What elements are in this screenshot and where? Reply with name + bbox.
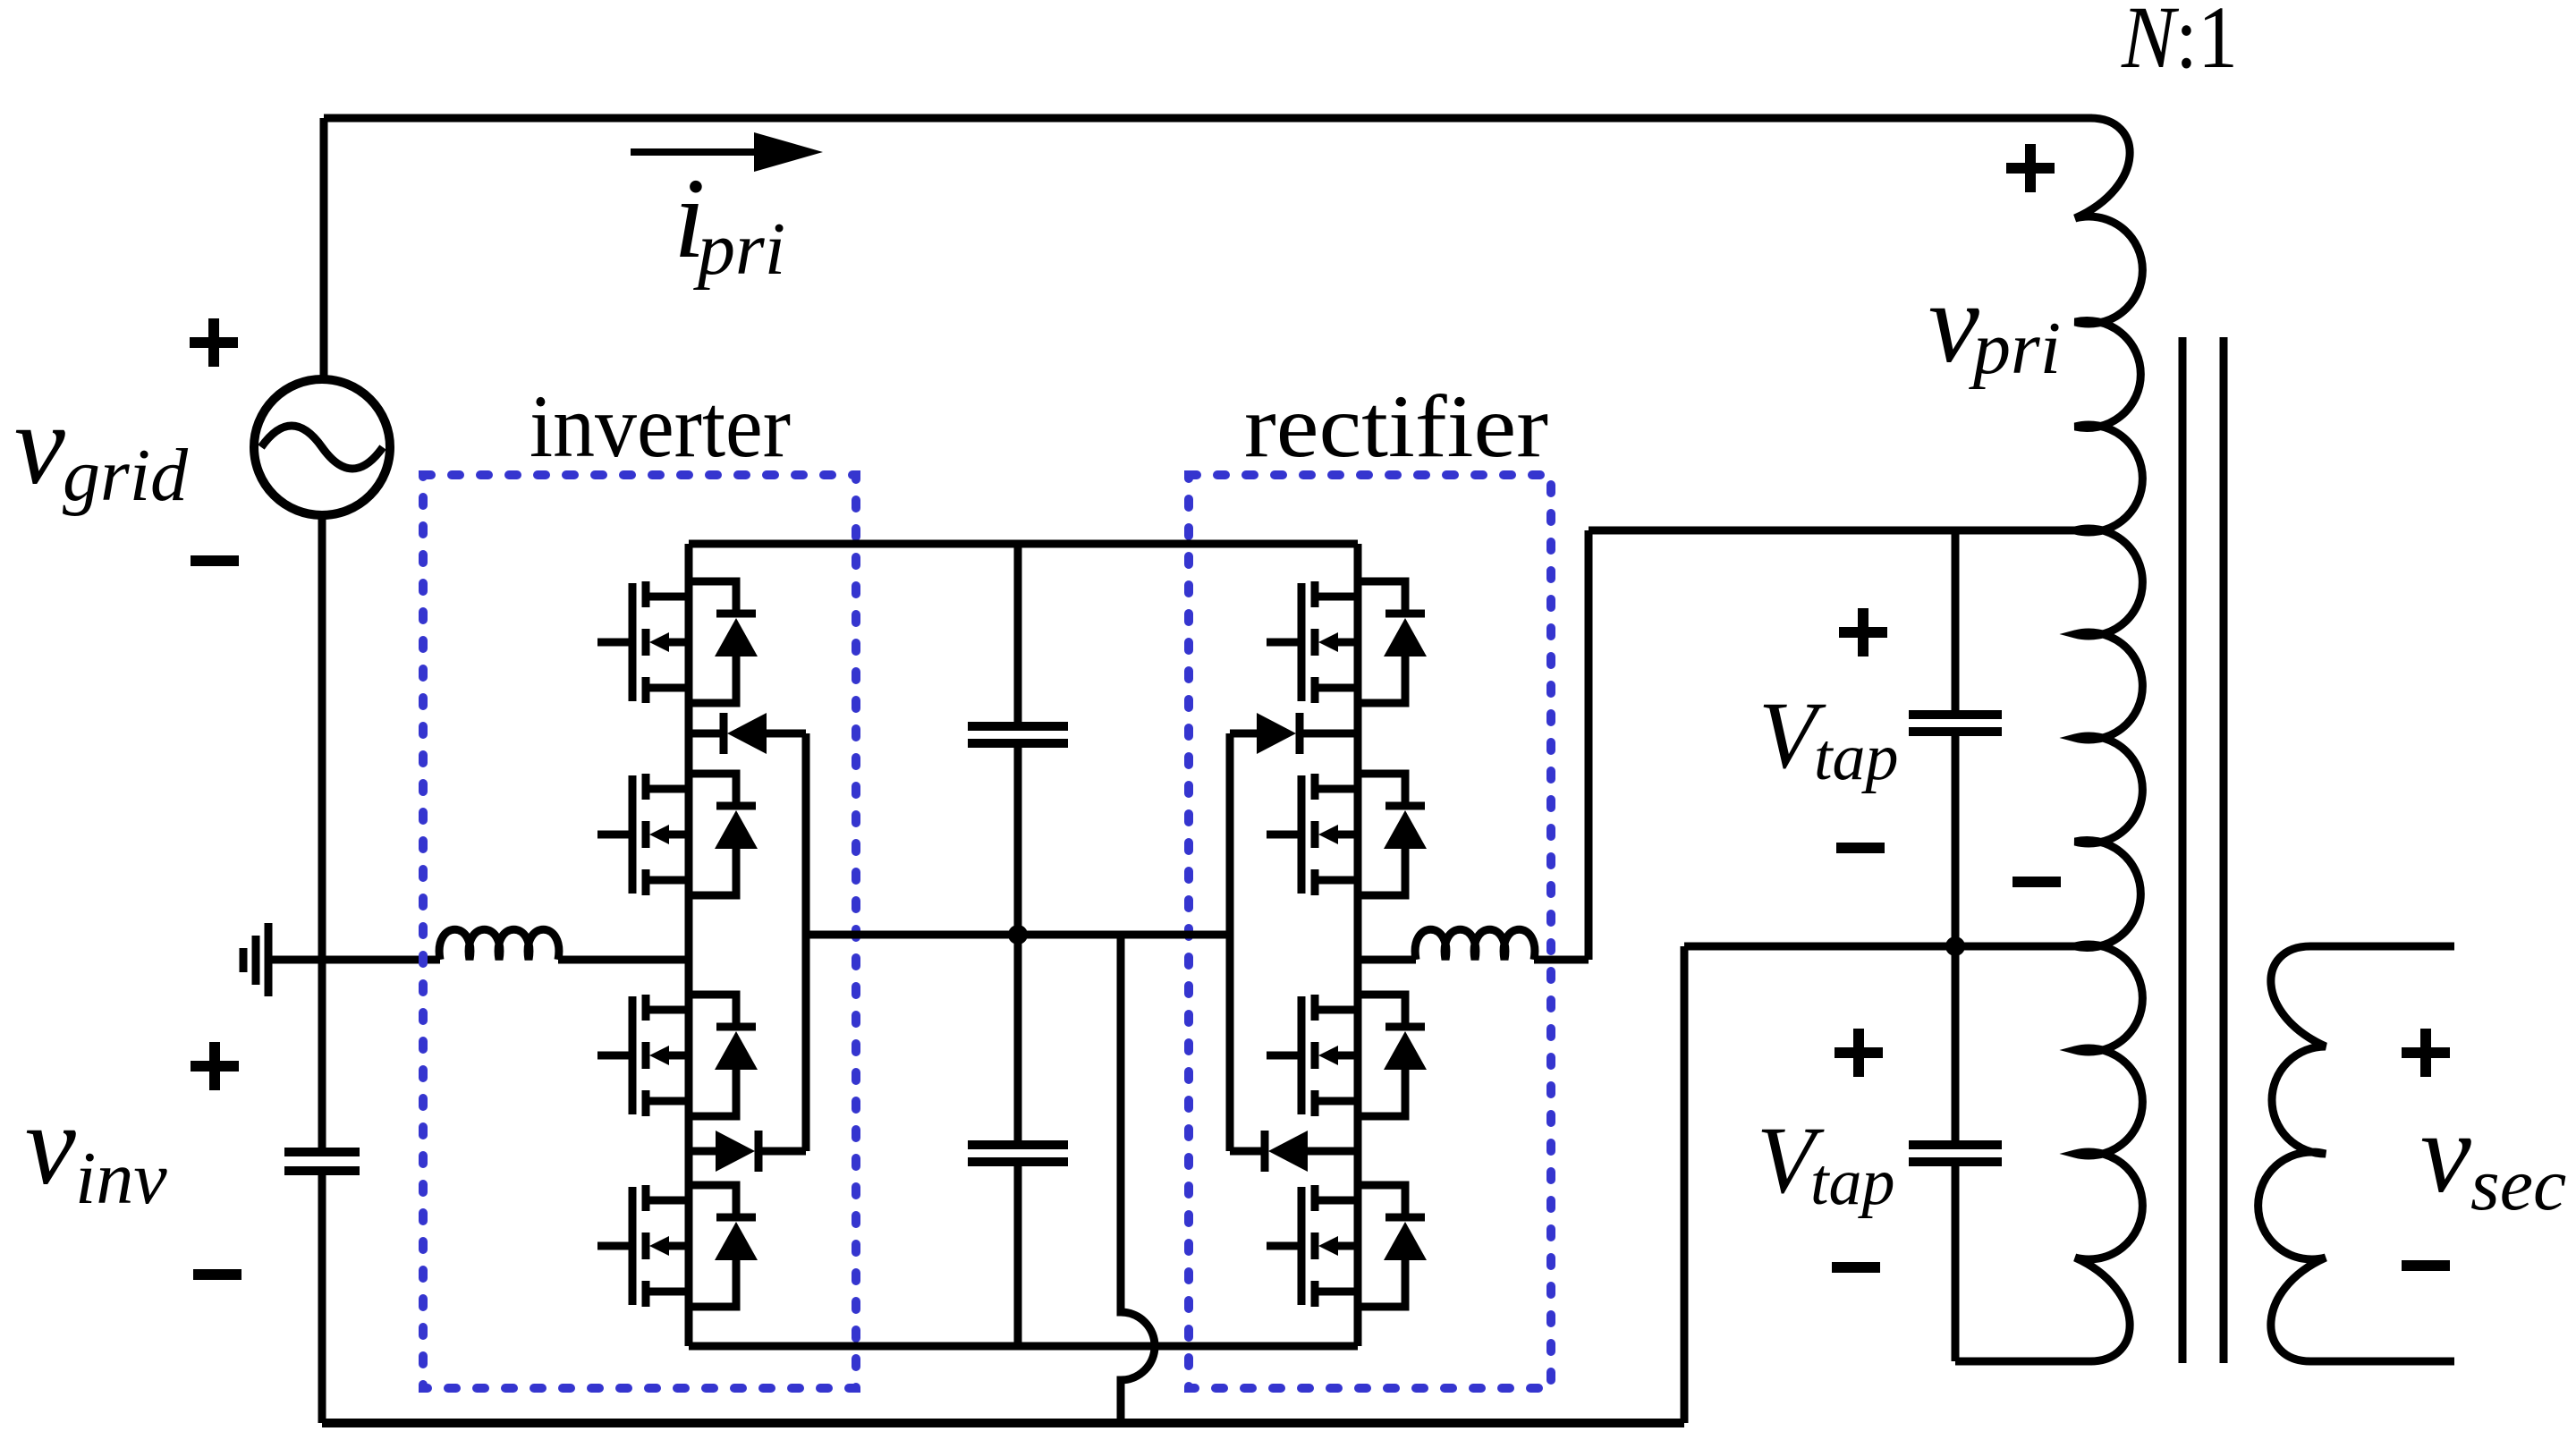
label + (vsec +) [2402, 1029, 2450, 1077]
wire ground to inverter inductor [268, 956, 440, 964]
transistor Q2 (MOSFET with body diode) [597, 774, 758, 895]
transformer primary winding (tapped) [2075, 118, 2142, 1361]
label + (vpri +) [2006, 144, 2055, 192]
node dc midpoint dot [1008, 925, 1028, 944]
svg-text:pri: pri [693, 208, 785, 291]
diode D1 (clamp, pointing left) [689, 713, 806, 754]
diode D2 (clamp, pointing right) [689, 1131, 806, 1172]
wire rectifier output to transformer upper tap [1589, 527, 2075, 535]
node tap junction dot [1945, 936, 1965, 956]
transistor Q6 (MOSFET with body diode) [1267, 774, 1427, 895]
svg-text:v: v [14, 381, 65, 508]
svg-text:v: v [25, 1081, 76, 1208]
label + (vinv +) [191, 1042, 239, 1090]
capacitor C1 (upper dc-link) [968, 544, 1068, 935]
box rectifier (dashed) [1189, 475, 1551, 1388]
wire riser bottom-right to tap line [1681, 946, 1689, 1423]
wire left vertical, source top lead [320, 118, 328, 381]
wire dc bottom rail between legs [689, 1343, 1358, 1351]
svg-text:rectifier: rectifier [1244, 377, 1548, 476]
transistor Q1 (MOSFET with body diode) [597, 581, 758, 703]
label + (Vtap lower +) [1835, 1029, 1883, 1077]
transistor Q4 (MOSFET with body diode) [597, 1185, 758, 1307]
wire tap line to transformer center tap [1684, 943, 2075, 951]
wire inductor to riser [1534, 956, 1589, 964]
svg-text:v: v [1928, 259, 1979, 386]
wire inductor to inverter leg midpoint [558, 956, 689, 964]
svg-text:N:1: N:1 [2121, 0, 2238, 87]
transistor Q8 (MOSFET with body diode) [1267, 1185, 1427, 1307]
transistor Q7 (MOSFET with body diode) [1267, 995, 1427, 1116]
svg-text:tap: tap [1814, 721, 1899, 794]
inductor Lrec (rectifier filter inductor) [1415, 929, 1535, 960]
ground symbol [243, 923, 268, 996]
inductor Linv (inverter filter inductor) [439, 929, 559, 960]
transformer core [2182, 337, 2224, 1363]
label - (vinv -) [193, 1269, 241, 1280]
source vgrid (AC source) [254, 379, 390, 515]
wire inverter clamp bus [802, 733, 810, 1151]
diode D4 (clamp, pointing left) [1230, 1131, 1358, 1172]
label - (vgrid -) [191, 555, 239, 566]
current arrow ipri [631, 132, 823, 172]
diode D3 (clamp, pointing right) [1230, 713, 1358, 754]
svg-text:sec: sec [2470, 1143, 2566, 1226]
box inverter (dashed) [423, 475, 856, 1388]
svg-text:inverter: inverter [530, 377, 791, 476]
label - (vsec -) [2402, 1260, 2450, 1271]
transformer secondary winding [2258, 946, 2454, 1361]
capacitor C3 (upper Vtap) [1909, 530, 2002, 946]
transistor Q5 (MOSFET with body diode) [1267, 581, 1427, 703]
svg-text:grid: grid [63, 434, 189, 517]
wire midpoint to bottom rail with crossover hop [1121, 935, 1155, 1423]
label + (Vtap upper +) [1839, 608, 1887, 656]
wire dc top rail between legs [689, 540, 1358, 548]
wire inverter leg vertical [685, 544, 693, 1346]
wire left vertical below source [318, 515, 326, 1152]
wire rectifier leg midpoint to inductor [1358, 956, 1416, 964]
wire rectifier clamp bus [1226, 733, 1234, 1151]
transistor Q3 (MOSFET with body diode) [597, 995, 758, 1116]
wire lower Vtap cap to winding bottom [1955, 1358, 2092, 1366]
wire bottom rail [322, 1419, 1684, 1427]
wire top rail from source to transformer primary [324, 114, 2092, 123]
label - (Vtap upper -) [1836, 843, 1885, 853]
label + (vgrid +) [190, 318, 238, 367]
svg-text:pri: pri [1969, 307, 2061, 390]
label - (Vtap lower -) [1832, 1262, 1880, 1273]
wire rectifier output riser [1585, 530, 1593, 960]
svg-text:tap: tap [1810, 1146, 1895, 1219]
capacitor C4 (lower Vtap) [1909, 946, 2002, 1361]
label - (vpri -) [2012, 877, 2061, 887]
capacitor C2 (lower dc-link) [968, 935, 1068, 1346]
wire rectifier leg vertical [1354, 544, 1362, 1346]
svg-text:v: v [2420, 1089, 2471, 1216]
svg-text:inv: inv [75, 1137, 167, 1220]
capacitor Cinv (vinv bus capacitor) [284, 1152, 360, 1423]
wire dc midpoint line [806, 931, 1230, 939]
